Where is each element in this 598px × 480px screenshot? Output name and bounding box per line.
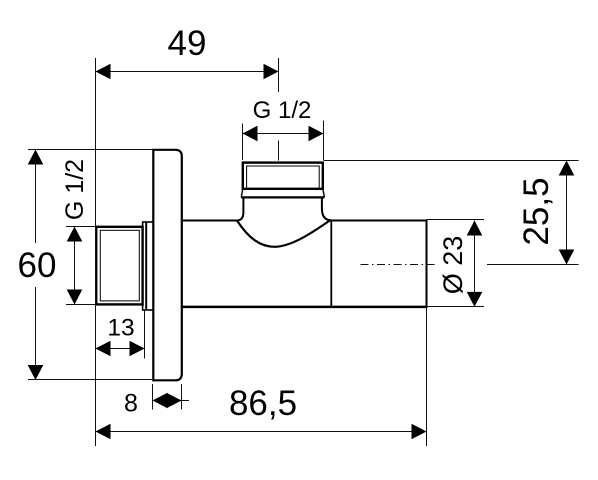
dim 25,5 bottom arrow (559, 250, 575, 265)
nut collar bottom (241, 196, 324, 198)
dim diameter 23 bottom extension (427, 306, 485, 308)
dim 60 bottom arrow (28, 365, 44, 380)
svg-text:86,5: 86,5 (229, 384, 297, 423)
dim 8 right tick (181, 384, 183, 410)
dim G1/2 top extension right (323, 121, 325, 161)
svg-text:G 1/2: G 1/2 (61, 159, 89, 220)
dim G1/2 left top arrow (67, 227, 83, 242)
svg-text:60: 60 (18, 246, 57, 285)
dim 13 line (96, 348, 145, 350)
dim 8 right arrow (167, 393, 182, 409)
dim G1/2 top extension left (242, 124, 244, 161)
svg-text:13: 13 (107, 315, 134, 342)
wall plate (153, 150, 182, 380)
dim 8 left arrow (153, 393, 168, 409)
inlet nipple G1/2 outer (96, 227, 142, 305)
dim 13 right extension (144, 311, 146, 359)
dim 49 left arrow (96, 64, 111, 80)
nipple collar (143, 222, 154, 310)
pipe end (426, 219, 428, 308)
fillet arc (cylinder intersection) (237, 220, 331, 247)
dim 86,5 right arrow (412, 424, 427, 440)
dim 49 right extension / center line (278, 58, 280, 161)
nut collar band (241, 189, 324, 198)
dim 25,5 bottom extension (centerline) (487, 264, 579, 266)
dim G1/2 top right arrow (309, 126, 324, 142)
dim 13 right arrow (130, 341, 145, 357)
top nut thread inner (247, 166, 320, 189)
dim 8 line (153, 400, 190, 402)
dim 60 top arrow (28, 150, 44, 165)
valve body top edge (182, 220, 237, 222)
dim 86,5 line (96, 431, 427, 433)
dim 86,5 right extension (426, 307, 428, 446)
valve body bottom edge (182, 306, 427, 309)
neck left side (236, 197, 243, 220)
dim 86,5 left arrow (96, 424, 111, 440)
dim G1/2 left extension top (66, 226, 96, 228)
dim 60 top extension (28, 149, 153, 151)
dim diameter 23 line (474, 221, 476, 307)
long left extension line (95, 58, 97, 446)
nut top extension to right (324, 160, 579, 162)
dim 60 line (35, 150, 37, 381)
dim 49 right arrow (264, 64, 279, 80)
top nut thread outer (243, 163, 323, 189)
svg-text:Ø 23: Ø 23 (438, 236, 468, 295)
dim G1/2 left line (74, 227, 76, 305)
dim 13 left arrow (96, 341, 111, 357)
svg-text:25,5: 25,5 (517, 177, 556, 245)
neck right side (322, 197, 332, 220)
dim 60 bottom extension (28, 379, 155, 381)
dim G1/2 left extension bottom (66, 304, 96, 306)
dim 25,5 top arrow (559, 161, 575, 176)
dim diameter 23 top extension (427, 219, 485, 221)
nipple collar inner line (145, 222, 147, 310)
dim 8 left tick (152, 384, 154, 410)
svg-text:8: 8 (124, 390, 138, 418)
pipe dashed centerline (361, 264, 437, 266)
svg-text:49: 49 (168, 24, 207, 63)
dim G1/2 top left arrow (243, 126, 258, 142)
dim G1/2 top line (243, 133, 324, 135)
inlet nipple thread inner (100, 230, 139, 301)
body/pipe section line (330, 221, 332, 307)
dim 25,5 line (566, 161, 568, 265)
dim 49 line (96, 71, 279, 73)
dim G1/2 left bottom arrow (67, 290, 83, 305)
pipe top edge (331, 220, 427, 222)
dim diameter 23 bottom arrow (467, 292, 483, 307)
dim diameter 23 top arrow (467, 221, 483, 236)
svg-text:G 1/2: G 1/2 (253, 97, 312, 124)
